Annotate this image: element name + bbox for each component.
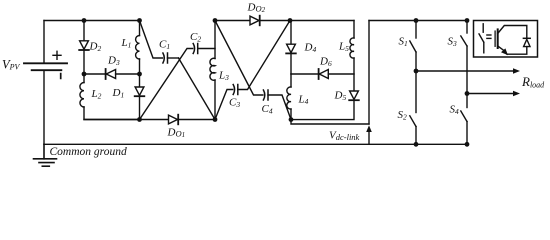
arrowhead output B [513, 91, 520, 96]
capacitor C4 [263, 90, 268, 100]
diode D5 [350, 91, 359, 99]
legend box [474, 21, 538, 58]
wire D3 right lead [116, 73, 140, 75]
node T3 [288, 18, 293, 23]
switch S2 [415, 71, 417, 113]
wire output arrow B [467, 93, 514, 95]
wire T2 column upper [214, 21, 216, 59]
node D3 right [137, 72, 142, 77]
ground symbol [34, 144, 57, 166]
wire L1 to D1 [139, 59, 141, 87]
legend IGBT channel bar [497, 29, 499, 48]
wire top rail middle segment (Do2 section) [215, 20, 290, 22]
plus sign of source [53, 51, 61, 59]
node bridge top S3 [465, 18, 470, 23]
diode D3 [105, 69, 107, 79]
capacitor C1 [163, 53, 168, 63]
wire battery column lower [43, 70, 45, 144]
wire L1 top lead [139, 21, 141, 36]
diode Do2 on top rail [250, 16, 259, 25]
inductor L2 [80, 83, 84, 108]
wire bottom rail Do1 left lead [84, 119, 169, 121]
wire X1 branch B diagonal from B1 [140, 49, 193, 120]
wire bridge top rail [369, 20, 467, 22]
diode D6 [318, 69, 320, 79]
node T2 [213, 18, 218, 23]
legend IGBT gate bar [494, 31, 496, 46]
wire top rail right-mid segment [290, 20, 354, 22]
wire B3 to dc-link [291, 120, 369, 124]
diode D2 [80, 41, 89, 49]
wire Do1 right lead [178, 119, 215, 121]
wire battery column upper [43, 21, 45, 64]
node B2 [213, 117, 218, 122]
wire C4 diagonal to B3 [268, 95, 291, 120]
svg-text:Common ground: Common ground [50, 146, 127, 158]
switch S4 [466, 94, 468, 108]
node T1 [137, 18, 142, 23]
wire top rail left segment [44, 20, 140, 22]
wire X2 branch A from B2 through C3 [215, 90, 233, 120]
legend equals sign [487, 35, 491, 38]
capacitor C2 [193, 44, 198, 54]
diode Do1 [169, 115, 178, 124]
wire D1 to bottom [139, 96, 141, 119]
wire D3 node to L2 [83, 74, 85, 83]
arrowhead legend emitter [501, 48, 508, 55]
wire L3 to B2 [214, 80, 216, 120]
legend antiparallel diode [523, 37, 530, 39]
wire C2 to T2 column [198, 48, 215, 50]
wire D5 bottom to B3 [291, 100, 354, 119]
legend IGBT emitter [498, 46, 504, 50]
arrowhead Vdc-link [366, 125, 372, 132]
wire X2 branch B from T2 through C4 [215, 21, 263, 96]
wire C3 to crossing P2 and diagonal to T3 [238, 21, 290, 90]
node S1 S2 midpoint [414, 69, 419, 74]
wire D6 left lead [291, 73, 319, 75]
wire D3 branch left lead [84, 73, 106, 75]
inductor L3 [210, 58, 215, 80]
node S3 S4 midpoint [465, 91, 470, 96]
node B1 [137, 117, 142, 122]
wire D6 right lead [328, 73, 354, 75]
source VPV battery plates [24, 63, 67, 70]
node S2 ground [414, 142, 419, 147]
node S4 ground [465, 142, 470, 147]
wire C1 to crossing P1 [168, 57, 179, 59]
inductor L5 [350, 38, 354, 58]
svg-text:Vdc-link: Vdc-link [329, 130, 360, 143]
legend switch symbol [482, 24, 484, 32]
wire D2 column upper [83, 21, 85, 41]
wire D4 column top lead [290, 21, 292, 45]
wire D4 to D6 node [290, 53, 292, 74]
wire L5 top lead [353, 21, 355, 39]
wire L4 to B3 [290, 109, 292, 120]
wire bridge left vertical [368, 21, 370, 125]
node B3 [289, 117, 294, 122]
node top D2 [82, 18, 87, 23]
wire D2 to D3 node [83, 50, 85, 74]
switch S1 [415, 21, 417, 39]
wire D6 node to L4 [290, 74, 292, 87]
wire X1 branch A diagonal to B2 [179, 58, 216, 120]
arrowhead output A [513, 68, 520, 73]
switch S3 [466, 21, 468, 34]
inductor L4 [287, 87, 291, 109]
node bridge top S1 [414, 18, 419, 23]
inductor L1 [136, 36, 140, 60]
annotation arrow Vdc-link [368, 132, 370, 145]
wire L5 to D5 [353, 58, 355, 91]
wire L2 to bottom wire [84, 107, 140, 120]
capacitor C3 [233, 85, 238, 95]
diode D1 [135, 87, 144, 95]
node D3 left [82, 72, 87, 77]
diode D4 [287, 44, 296, 52]
legend IGBT collector and diode loop [498, 26, 527, 39]
minus tick of source [60, 74, 62, 79]
wire ground rail [44, 143, 467, 145]
wire output arrow A [416, 70, 514, 72]
wire X1 branch A diagonal from T1 [140, 21, 163, 59]
